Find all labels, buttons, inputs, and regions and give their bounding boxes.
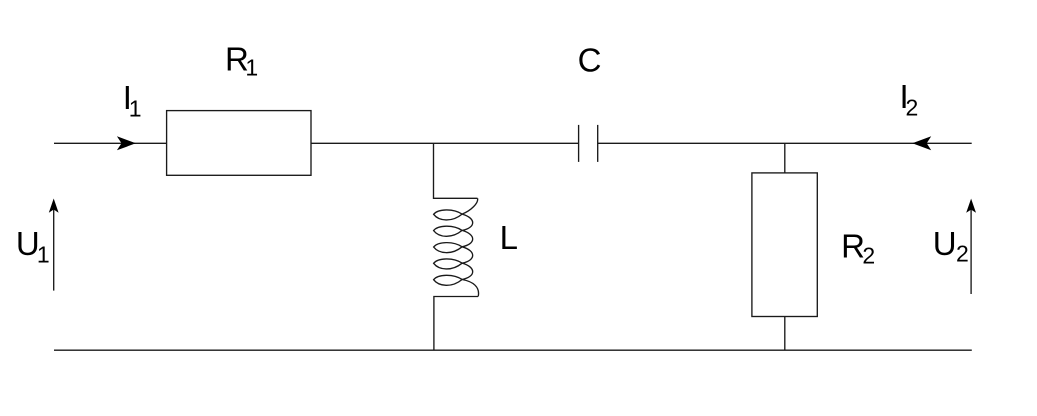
capacitor C plate right <box>597 125 599 162</box>
voltage arrow U2 head <box>966 199 976 213</box>
current arrow I1 head <box>117 136 136 150</box>
wire node B to R2 top <box>784 143 786 173</box>
wire top-left segment <box>54 142 167 144</box>
svg-text:1: 1 <box>37 241 50 267</box>
voltage arrow U1 shaft <box>53 202 55 291</box>
svg-text:U: U <box>933 225 957 262</box>
wire inductor bottom to rail <box>434 297 478 351</box>
wire R1 to capacitor <box>311 142 579 144</box>
svg-text:2: 2 <box>906 95 919 121</box>
wire bottom rail <box>54 349 972 351</box>
current arrow I2 head <box>912 136 931 150</box>
svg-text:L: L <box>500 219 518 256</box>
wire node A to inductor top <box>434 143 478 198</box>
resistor R2 <box>752 173 817 317</box>
svg-text:1: 1 <box>129 95 142 121</box>
voltage arrow U2 shaft <box>970 202 972 294</box>
svg-text:2: 2 <box>956 241 969 267</box>
inductor L coil <box>434 198 479 296</box>
svg-text:C: C <box>578 42 602 79</box>
svg-text:1: 1 <box>245 55 258 81</box>
capacitor C plate left <box>578 125 580 162</box>
resistor R1 <box>167 111 311 176</box>
svg-text:2: 2 <box>862 243 875 269</box>
wire capacitor to right end <box>598 142 972 144</box>
voltage arrow U1 head <box>49 199 59 213</box>
wire R2 bottom to rail <box>784 317 786 351</box>
